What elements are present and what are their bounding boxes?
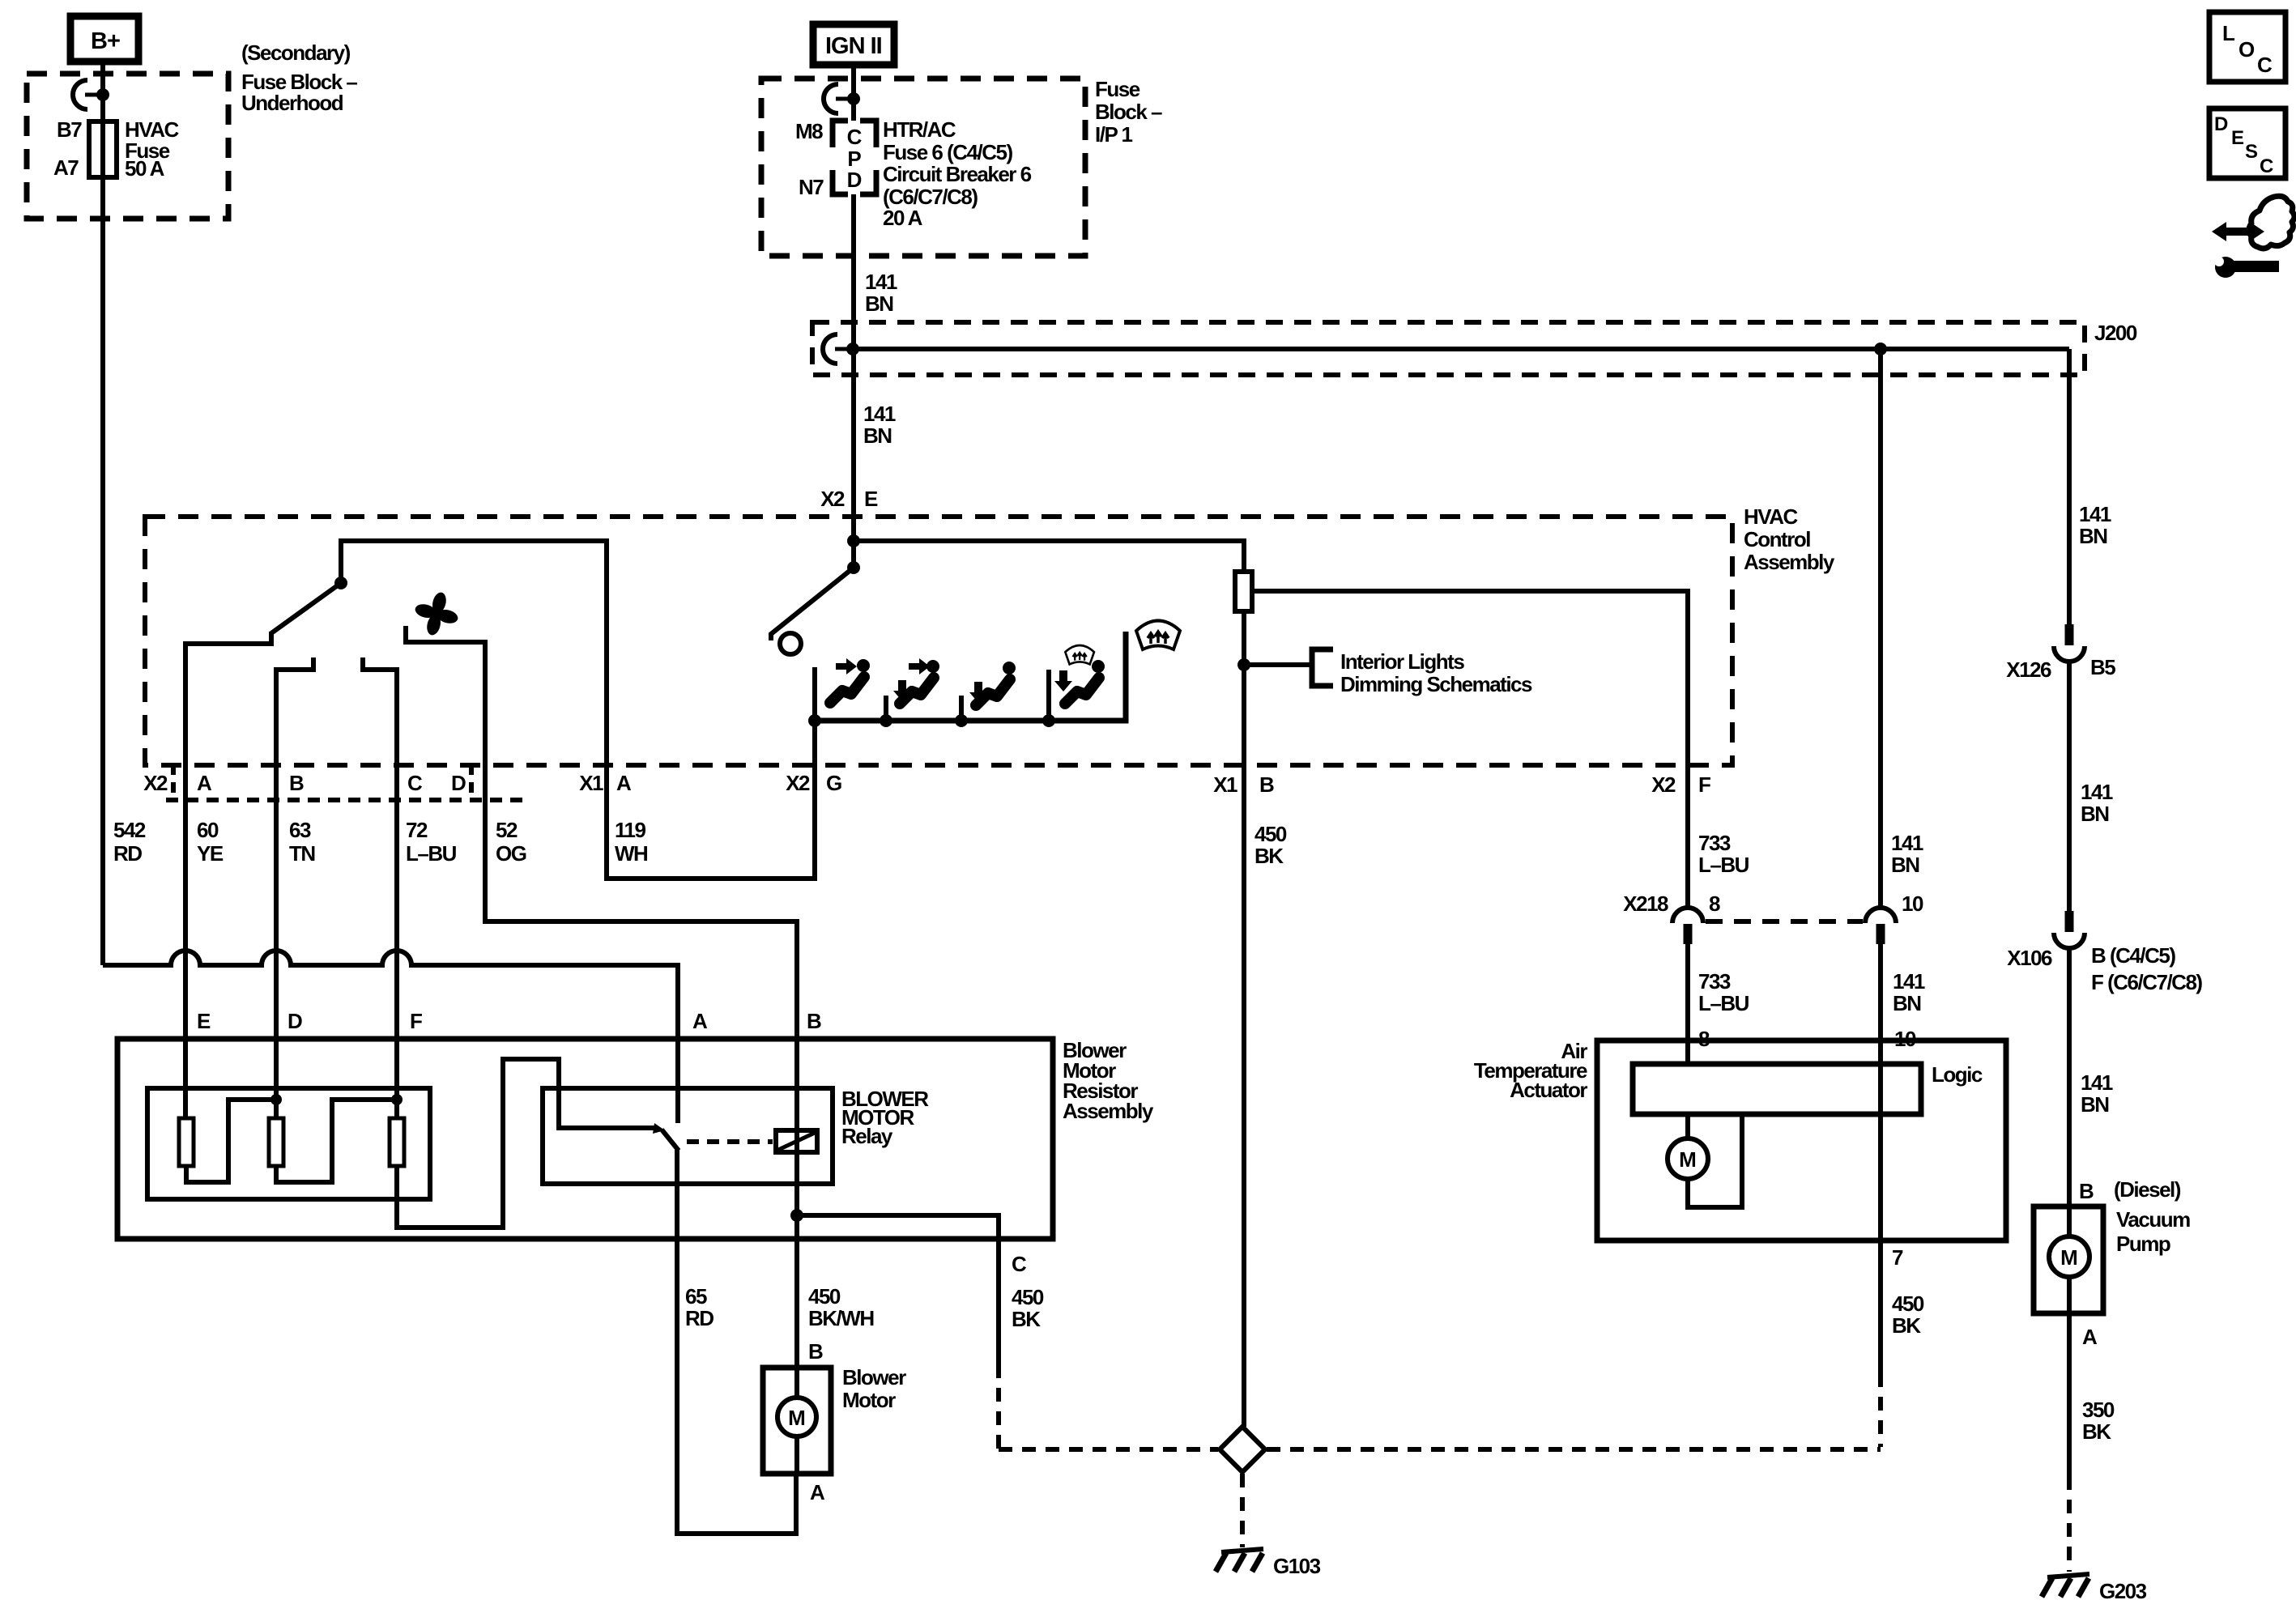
label 450 BK (pin C wire): [1012, 1285, 1044, 1331]
svg-text:BN: BN: [1893, 991, 1921, 1015]
svg-text:BK/WH: BK/WH: [808, 1306, 874, 1330]
svg-text:141: 141: [2081, 1070, 2113, 1095]
label 141 BN rail middle: [2081, 780, 2113, 826]
label Air Temperature Actuator: [1474, 1039, 1587, 1102]
relay contact arrowhead: [653, 1123, 665, 1134]
junction dot relay coil low side: [790, 1209, 803, 1222]
svg-text:BN: BN: [2079, 524, 2107, 548]
actuator motor M: [1668, 1040, 1742, 1207]
label B (Diesel): [2079, 1177, 2181, 1203]
svg-text:L: L: [2222, 21, 2235, 45]
svg-text:B: B: [289, 771, 304, 795]
logic module rect: [1633, 1064, 1921, 1114]
svg-text:B: B: [808, 1339, 823, 1364]
wire branch to pin C: [797, 1215, 999, 1364]
mode switch contact circle: [780, 633, 801, 654]
power terminal IGN II: [813, 24, 894, 65]
svg-text:J200: J200: [2094, 321, 2137, 345]
in-line connector X218 pin 10: [1865, 908, 1896, 1064]
wire switch feed left segment: [341, 541, 607, 765]
svg-text:A: A: [616, 771, 632, 795]
svg-text:G103: G103: [1273, 1554, 1321, 1578]
terminal clip B7: [73, 80, 109, 109]
HVAC control assembly dashed box: [145, 517, 1732, 765]
mode icon defrost-floor: [1054, 645, 1105, 704]
mode icon vent (seat with arrow to face): [830, 658, 870, 703]
wire 733 L-BU resistor to X2 F: [1252, 591, 1688, 908]
label Blower Motor: [842, 1365, 906, 1412]
svg-text:350: 350: [2082, 1398, 2115, 1422]
fan switch blade: [271, 583, 341, 633]
pin labels E D F A B: [197, 1009, 821, 1033]
svg-text:72: 72: [406, 818, 428, 842]
svg-text:HTR/AC: HTR/AC: [883, 117, 956, 142]
wire 542 RD from B+ through fuse down and across to resistor pin A (with hops): [103, 62, 678, 1123]
fuse HVAC 50 A: [89, 121, 117, 177]
mode icon front defrost: [1136, 621, 1180, 650]
relay coil: [776, 1130, 817, 1152]
svg-text:Control: Control: [1744, 527, 1810, 551]
wire labels 119 WH: [615, 818, 648, 866]
svg-text:RD: RD: [685, 1306, 714, 1330]
svg-text:C: C: [1012, 1252, 1027, 1276]
connector X2 strip dashed outline: [171, 764, 176, 800]
svg-text:141: 141: [863, 402, 896, 426]
label 141 BN: [865, 270, 897, 316]
label BLOWER MOTOR Relay: [841, 1087, 929, 1148]
wire labels 63 TN: [289, 818, 315, 866]
svg-text:Blower: Blower: [842, 1365, 906, 1389]
blower motor M: [777, 1368, 816, 1474]
ground splice diamond: [1220, 1427, 1265, 1472]
wire labels 60 YE: [197, 818, 224, 866]
splice pack J200 dashed box: [812, 322, 2085, 375]
svg-text:I/P 1: I/P 1: [1095, 122, 1133, 147]
svg-text:Actuator: Actuator: [1510, 1078, 1587, 1102]
label 450 BK: [1254, 822, 1287, 868]
svg-text:X106: X106: [2007, 946, 2052, 970]
pin labels 8 10 actuator: [1698, 1027, 1916, 1051]
svg-text:F: F: [1698, 772, 1710, 797]
labels X106 B F: [2007, 943, 2202, 994]
svg-text:BN: BN: [2081, 1092, 2109, 1117]
svg-text:F (C6/C7/C8): F (C6/C7/C8): [2091, 970, 2202, 994]
label Blower Motor Resistor Assembly: [1063, 1038, 1154, 1123]
svg-text:RD: RD: [113, 841, 142, 866]
svg-text:X2: X2: [143, 771, 168, 795]
svg-text:BN: BN: [863, 423, 892, 448]
svg-text:Relay: Relay: [841, 1124, 893, 1148]
wire IGN II to breaker: [851, 65, 856, 121]
wire R2 to node F: [276, 1100, 397, 1182]
svg-text:OG: OG: [496, 841, 526, 866]
svg-text:B: B: [807, 1009, 821, 1033]
fan switch contact D wire 52 OG to relay coil: [406, 626, 797, 1215]
DESC box: [2209, 109, 2285, 178]
svg-text:7: 7: [1892, 1245, 1903, 1270]
svg-text:N7: N7: [799, 175, 824, 199]
svg-text:M: M: [2060, 1245, 2078, 1270]
svg-text:BK: BK: [1254, 844, 1284, 868]
resistor pack box: [147, 1088, 430, 1199]
svg-text:BK: BK: [1012, 1307, 1041, 1331]
fan switch pivot: [334, 577, 347, 589]
svg-text:450: 450: [1012, 1285, 1044, 1309]
wire 141 BN right rail from J200: [2067, 349, 2072, 624]
wire labels 72 L-BU: [406, 818, 457, 866]
svg-text:X1: X1: [579, 771, 603, 795]
svg-text:B7: B7: [57, 117, 82, 142]
svg-text:WH: WH: [615, 841, 648, 866]
svg-text:A: A: [197, 771, 212, 795]
svg-text:BK: BK: [2082, 1419, 2111, 1444]
svg-text:O: O: [2238, 37, 2255, 62]
svg-text:TN: TN: [289, 841, 315, 866]
vacuum pump motor M: [2049, 1206, 2089, 1313]
svg-text:BN: BN: [2081, 802, 2109, 826]
wire labels 52 OG: [496, 818, 526, 866]
label HVAC Fuse 50 A: [125, 117, 179, 181]
svg-text:C: C: [2260, 155, 2273, 177]
label 141 BN upper branch: [1891, 831, 1923, 877]
wire pin 10 through logic to pin 7: [1878, 1064, 1883, 1240]
wire R1 to node D: [186, 1100, 276, 1182]
svg-text:D: D: [451, 771, 466, 795]
interior lights bracket: [1312, 649, 1333, 686]
svg-text:141: 141: [2079, 502, 2111, 526]
labels X1 A pins: [579, 771, 632, 795]
svg-text:B (C4/C5): B (C4/C5): [2091, 943, 2175, 968]
svg-text:S: S: [2245, 141, 2258, 163]
svg-text:E: E: [864, 487, 878, 511]
wire 65 RD relay common to motor A: [677, 1150, 796, 1534]
svg-text:A: A: [692, 1009, 708, 1033]
svg-text:Block –: Block –: [1095, 100, 1162, 124]
label 141 BN lower: [1893, 969, 1925, 1015]
wire 350 BK: [2067, 1313, 2072, 1476]
dashed ground bus to actuator: [1267, 1447, 1881, 1452]
label 733 L-BU upper: [1698, 831, 1749, 877]
svg-text:L–BU: L–BU: [406, 841, 457, 866]
svg-text:Pump: Pump: [2116, 1232, 2170, 1256]
svg-text:119: 119: [615, 818, 645, 842]
svg-text:HVAC: HVAC: [1744, 504, 1798, 529]
svg-text:A: A: [2082, 1325, 2098, 1349]
fuse block underhood dashed box: [27, 74, 228, 219]
svg-text:Logic: Logic: [1932, 1062, 1983, 1087]
svg-text:733: 733: [1698, 831, 1731, 855]
wire 141 BN J200 down into HVAC assembly: [851, 349, 856, 568]
svg-text:BN: BN: [865, 291, 893, 316]
wire 141 BN breaker to J200: [851, 194, 856, 349]
terminal clip M8: [824, 84, 860, 113]
wire 450 BK actuator pin 7: [1878, 1240, 1883, 1373]
svg-text:(Diesel): (Diesel): [2114, 1177, 2181, 1202]
dashed splice to G103: [1240, 1474, 1245, 1547]
svg-text:F: F: [410, 1009, 422, 1033]
mode icon bi-level: [893, 658, 939, 704]
air temperature actuator box: [1597, 1040, 2006, 1240]
svg-text:C: C: [847, 125, 863, 149]
svg-text:63: 63: [289, 818, 311, 842]
svg-text:10: 10: [1902, 891, 1923, 916]
svg-text:141: 141: [1891, 831, 1923, 855]
blower motor resistor assembly box: [117, 1039, 1053, 1239]
svg-text:A7: A7: [53, 155, 79, 180]
wire 119 WH loop X1-A to X2-G: [607, 765, 815, 879]
wire R3 output to relay contact: [397, 1059, 654, 1228]
node dot D: [270, 1094, 282, 1105]
svg-text:X126: X126: [2006, 657, 2051, 682]
mode icon floor: [969, 662, 1016, 705]
ground G203: [2042, 1574, 2089, 1597]
svg-text:L–BU: L–BU: [1698, 991, 1749, 1015]
svg-text:M: M: [1679, 1147, 1697, 1172]
svg-text:C: C: [2257, 53, 2273, 77]
label 141 BN below J200: [863, 402, 896, 448]
resistor R1: [179, 1118, 194, 1166]
fan switch contact B wire 63 TN: [276, 657, 313, 1118]
label HTR/AC Fuse 6 Circuit Breaker 6 20 A: [883, 117, 1032, 230]
svg-text:Assembly: Assembly: [1744, 550, 1835, 574]
svg-text:M8: M8: [795, 119, 823, 143]
svg-text:B: B: [1259, 772, 1274, 797]
power terminal B+: [70, 16, 138, 62]
in-line connector X218 pin 8: [1672, 908, 1703, 1040]
labels X126 B5: [2006, 655, 2115, 682]
junction dot J200 branch: [1874, 343, 1887, 355]
label (Secondary) Fuse Block Underhood: [241, 40, 357, 115]
svg-text:D: D: [288, 1009, 302, 1033]
svg-text:M: M: [788, 1406, 806, 1430]
svg-text:L–BU: L–BU: [1698, 853, 1749, 877]
interior lights resistor: [1242, 611, 1246, 665]
svg-text:65: 65: [685, 1284, 707, 1308]
junction dot interior lights branch: [1237, 658, 1250, 671]
label 733 L-BU lower: [1698, 969, 1749, 1015]
wire 141 BN branch to X218 pin 10: [1878, 349, 1883, 908]
label 141 BN rail upper: [2079, 502, 2111, 548]
wire J200 bus to right rail: [853, 347, 2069, 351]
svg-text:450: 450: [1892, 1291, 1924, 1316]
svg-text:Fuse: Fuse: [1095, 77, 1140, 101]
dashed jumper X218: [1706, 919, 1863, 924]
svg-text:52: 52: [496, 818, 518, 842]
svg-text:60: 60: [197, 818, 219, 842]
svg-text:733: 733: [1698, 969, 1731, 994]
wire 450 BK/WH to motor B: [794, 1215, 799, 1368]
svg-text:X218: X218: [1623, 891, 1668, 916]
labels X1 B: [1213, 772, 1274, 797]
fan switch contact C wire 72 L-BU: [363, 657, 397, 1118]
svg-text:B5: B5: [2090, 655, 2115, 679]
svg-text:(Secondary): (Secondary): [241, 40, 351, 65]
svg-text:8: 8: [1709, 891, 1720, 916]
mode bus ticks: [886, 670, 1049, 721]
svg-text:X2: X2: [820, 487, 845, 511]
junction dot switch feed: [847, 534, 860, 547]
relay coil dashed link: [687, 1139, 773, 1144]
svg-text:542: 542: [113, 818, 146, 842]
svg-text:Fuse 6 (C4/C5): Fuse 6 (C4/C5): [883, 140, 1012, 164]
svg-text:G203: G203: [2099, 1579, 2147, 1603]
svg-text:BK: BK: [1892, 1313, 1921, 1338]
svg-text:E: E: [2231, 127, 2244, 149]
svg-text:E: E: [197, 1009, 211, 1033]
blower motor box: [763, 1368, 831, 1474]
node dot F: [391, 1094, 403, 1105]
resistor R3: [390, 1118, 404, 1166]
svg-text:450: 450: [808, 1284, 841, 1308]
svg-text:20 A: 20 A: [883, 206, 923, 230]
terminal clip J200: [823, 334, 859, 364]
label 450 BK actuator: [1892, 1291, 1924, 1338]
fuse block I/P dashed box: [761, 79, 1085, 256]
svg-text:A: A: [810, 1480, 825, 1504]
svg-text:Motor: Motor: [842, 1388, 896, 1412]
svg-text:Dimming Schematics: Dimming Schematics: [1340, 672, 1532, 696]
label Fuse Block I/P 1: [1095, 77, 1162, 147]
svg-text:50 A: 50 A: [125, 156, 165, 181]
labels X2 F pins: [1651, 772, 1710, 797]
wire switch feed right segment: [854, 541, 1244, 572]
service hand-wrench icon: [2212, 196, 2294, 278]
labels X2 A B C D pins: [143, 771, 466, 795]
svg-text:141: 141: [865, 270, 897, 294]
in-line connector X106: [2054, 911, 2085, 1206]
blower motor relay box: [543, 1088, 833, 1184]
fan icon: [414, 591, 459, 636]
svg-text:141: 141: [2081, 780, 2113, 804]
svg-text:Interior Lights: Interior Lights: [1340, 649, 1464, 674]
svg-text:Vacuum: Vacuum: [2116, 1207, 2190, 1232]
label 542 RD: [113, 818, 146, 866]
label 65 RD: [685, 1284, 714, 1330]
svg-text:X1: X1: [1213, 772, 1237, 797]
fan switch wiper to contact A wire 60 YE: [185, 632, 271, 1118]
wire 450 BK from X1 B down to ground splice: [1242, 665, 1246, 1427]
in-line connector X126: [2054, 624, 2085, 911]
svg-text:YE: YE: [197, 841, 224, 866]
svg-text:B+: B+: [91, 28, 120, 54]
label Interior Lights Dimming Schematics: [1340, 649, 1532, 696]
svg-text:450: 450: [1254, 822, 1287, 846]
svg-text:D: D: [847, 168, 863, 192]
mode bus wire: [815, 632, 1126, 721]
labels X2 G pins: [786, 771, 841, 795]
wire X2 G pin from bus: [812, 667, 817, 765]
dashed 450 BK to ground splice: [999, 1364, 1218, 1449]
label HVAC Control Assembly: [1744, 504, 1835, 574]
svg-text:X2: X2: [786, 771, 810, 795]
ground G103: [1216, 1549, 1263, 1572]
relay blade: [662, 1130, 679, 1151]
svg-text:G: G: [826, 771, 841, 795]
svg-text:BN: BN: [1891, 853, 1919, 877]
LOC box: [2209, 12, 2285, 82]
mode bus junction dots: [808, 714, 821, 727]
svg-text:B: B: [2079, 1179, 2094, 1203]
svg-text:Assembly: Assembly: [1063, 1099, 1154, 1123]
label 450 BK/WH: [808, 1284, 874, 1330]
labels X218 8 10: [1623, 891, 1923, 916]
svg-text:C: C: [407, 771, 423, 795]
label Vacuum Pump: [2116, 1207, 2190, 1256]
mode switch blade: [771, 568, 854, 640]
mode switch pivot: [847, 561, 860, 574]
labels X2 E at top connector: [820, 487, 878, 511]
svg-text:IGN II: IGN II: [825, 33, 882, 59]
svg-text:X2: X2: [1651, 772, 1676, 797]
vacuum pump box: [2034, 1206, 2103, 1313]
circuit breaker CPD symbol: [833, 121, 876, 194]
svg-text:D: D: [2214, 113, 2228, 135]
wire branch to interior lights bracket: [1244, 662, 1310, 667]
svg-text:Circuit Breaker 6: Circuit Breaker 6: [883, 162, 1032, 186]
resistor R2: [269, 1118, 283, 1166]
svg-text:141: 141: [1893, 969, 1925, 994]
svg-text:Underhood: Underhood: [241, 91, 343, 115]
label 141 BN rail lower: [2081, 1070, 2113, 1117]
label 350 BK: [2082, 1398, 2115, 1444]
